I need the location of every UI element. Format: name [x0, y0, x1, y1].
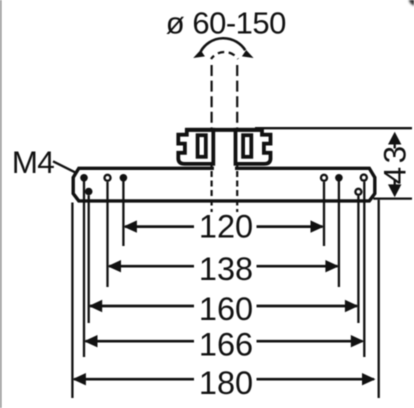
curved double-arrow over pole [201, 38, 246, 51]
dimension 166 [86, 340, 363, 343]
hole C (left ring) [103, 174, 111, 182]
dashed centre line right (pole silhouette) [236, 65, 238, 167]
plate outline (chamfered bar), top edge open between jaws [73, 168, 375, 201]
dimension 120 [125, 225, 323, 228]
dimension 138 [109, 265, 338, 268]
extension line from hole C (138) [106, 182, 108, 287]
svg-text:120: 120 [199, 209, 253, 245]
extension line from hole G (166) [363, 182, 365, 357]
clamp left jaw slot [198, 135, 206, 157]
hole D (left inner, filled) [120, 174, 128, 182]
svg-text:ø 60-150: ø 60-150 [166, 6, 286, 41]
clamp left jaw outline [178, 130, 213, 164]
extension line from hole E (120) [323, 182, 325, 246]
extension line from hole D (120) [122, 182, 124, 247]
svg-text:M4: M4 [12, 144, 54, 180]
extension line plate left edge (180) [71, 203, 73, 399]
43-dim bottom extension line [373, 197, 412, 199]
dimension 160 [90, 305, 357, 308]
leader line M4 [53, 161, 76, 173]
clamp right jaw slot [243, 135, 251, 157]
extension line from hole A (166) [83, 182, 85, 358]
arrowhead left of curved arrow [193, 50, 205, 58]
clamp top bar [185, 128, 261, 132]
svg-text:160: 160 [199, 291, 253, 327]
svg-text:166: 166 [199, 326, 253, 362]
arrowhead right of curved arrow [242, 50, 254, 58]
43-dim top extension line [255, 127, 412, 129]
hole B (left lower, filled) [85, 188, 93, 196]
extension line plate right side (180) [378, 200, 380, 398]
clamp right jaw outline [236, 130, 271, 164]
hole A (left outer, filled) [80, 174, 88, 182]
extension line from hole B (160) [88, 195, 90, 323]
scan artifact: left page border [0, 0, 2, 408]
dashed pole-top arc [211, 52, 238, 59]
dimension 43 vertical: down arrow [388, 184, 401, 197]
extension line from hole H (160) [357, 196, 359, 323]
scan artifact: dark blob top-right corner [409, 0, 414, 6]
hole G (right outer ring) [360, 173, 368, 181]
svg-text:180: 180 [199, 365, 253, 401]
extension line from hole F (138) [338, 182, 340, 288]
dimension 43 line stubs [394, 141, 396, 149]
dimension 43 vertical: up arrow [388, 132, 401, 145]
svg-text:138: 138 [199, 251, 253, 287]
hole H (right lower ring) [354, 188, 362, 196]
hole E (right inner ring) [320, 174, 328, 182]
hole F (right, filled) [335, 174, 343, 182]
dimension 180 [74, 378, 374, 381]
dashed centre line left (pole silhouette) [211, 65, 213, 167]
svg-text:43: 43 [377, 142, 413, 184]
